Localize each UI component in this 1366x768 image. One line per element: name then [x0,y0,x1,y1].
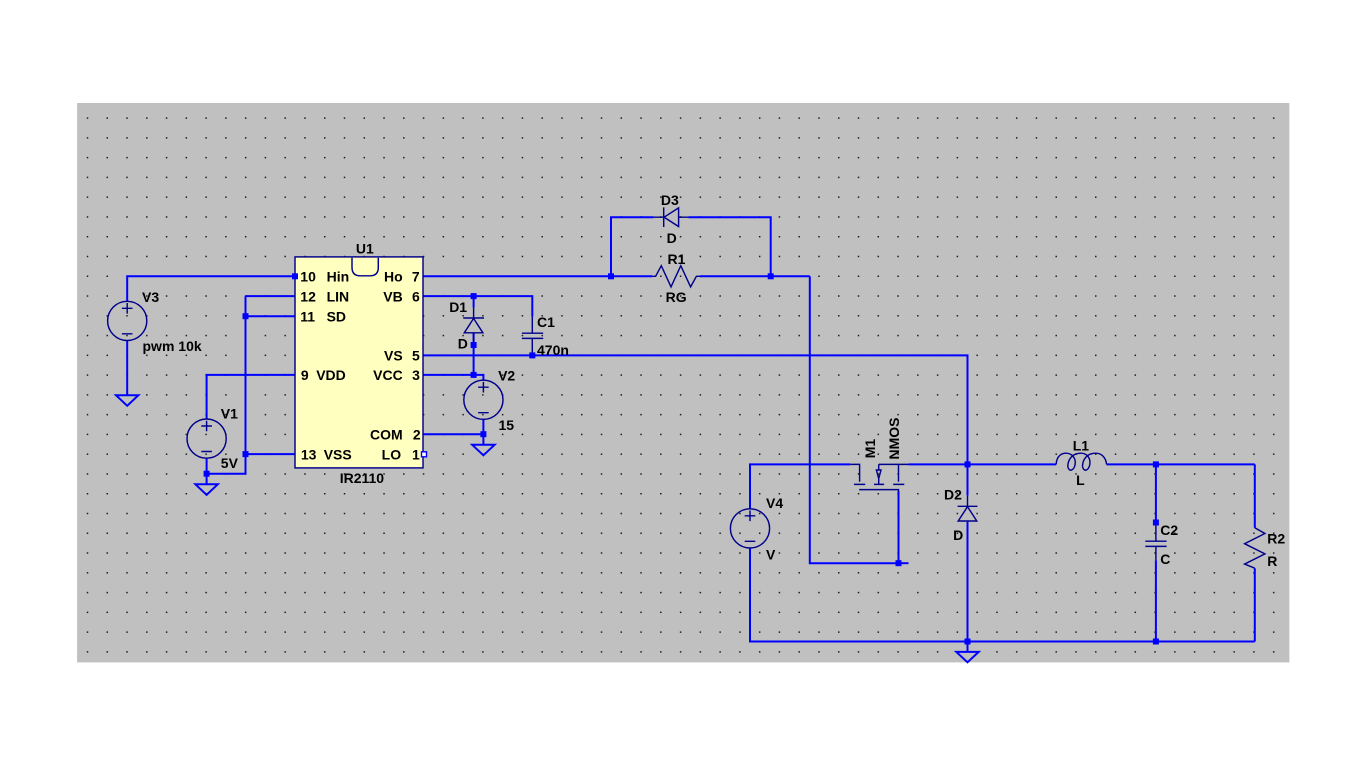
wire gate drop from R1 [810,276,899,563]
node D3 left [608,273,614,279]
node VB [471,293,477,299]
svg-text:10: 10 [300,269,316,285]
wire switch node to L1 [968,463,1057,465]
ground flag V3 [116,395,138,406]
svg-text:12: 12 [300,288,316,304]
svg-text:R: R [1267,553,1277,569]
wire L1 to output node [1107,463,1255,465]
svg-text:V1: V1 [221,405,238,421]
svg-text:R2: R2 [1267,531,1285,547]
svg-text:D2: D2 [944,486,962,502]
op-amp U1 IR2110 body [295,257,423,468]
ground flag V1 [195,484,217,495]
node VCC [471,372,477,378]
wire Ho pin 7 to R1 [423,275,652,277]
svg-text:RG: RG [666,289,687,305]
svg-text:13: 13 [301,446,317,462]
capacitor C1 [522,317,543,353]
svg-text:2: 2 [413,426,421,442]
wire SD pin 11 [246,315,296,317]
wire COM pin 2 [423,433,483,435]
wire D2 anode to bottom rail [967,522,969,642]
svg-text:V4: V4 [766,495,783,511]
voltage source V1 [187,419,226,458]
U1 notch [352,258,378,276]
inductor L1 [1056,453,1106,470]
wire M1 gate vertical [898,491,900,563]
svg-text:LIN: LIN [327,288,350,304]
resistor R1 [652,266,699,287]
wire VB pin 6 to C1 [423,296,532,317]
svg-text:VS: VS [384,348,403,364]
node gate [896,560,902,566]
diode D1 [463,308,484,346]
wire R1 right to gate corner [700,275,810,277]
svg-text:COM: COM [370,426,403,442]
wire R2 bottom lead [1254,568,1256,641]
svg-text:NMOS: NMOS [886,418,902,460]
svg-text:R1: R1 [668,251,686,267]
wire VSS pin 13 [246,453,296,455]
svg-text:VCC: VCC [373,367,403,383]
wire V2 minus to ground [482,434,484,445]
svg-text:C2: C2 [1160,522,1178,538]
node COM [480,431,486,437]
svg-text:U1: U1 [356,240,374,256]
svg-text:pwm 10k: pwm 10k [143,338,202,354]
wire V4 plus to drain rail [750,464,850,508]
voltage source V3 [108,301,147,340]
wire VB junction down to D1 [473,296,475,307]
wire LIN pin 12 [246,295,296,297]
svg-text:9: 9 [301,367,309,383]
svg-text:IR2110: IR2110 [340,470,385,486]
wire V1 minus lead [206,458,208,473]
node C2 bottom [1153,639,1159,645]
svg-text:V2: V2 [498,368,515,384]
grid dots [77,103,1289,662]
svg-text:7: 7 [412,269,420,285]
diode D3 [654,207,689,227]
svg-text:V3: V3 [142,289,159,305]
svg-text:11: 11 [300,308,315,324]
svg-text:VSS: VSS [324,446,352,462]
resistor R2 [1245,528,1265,568]
voltage source V4 [730,509,769,548]
wire M1 source rail to switch node [909,463,968,465]
svg-text:5V: 5V [221,455,239,471]
node output top [1153,461,1159,467]
transistor M1 NMOS [850,464,908,492]
ground flag V2 [472,445,494,456]
capacitor C2 [1145,523,1166,561]
svg-text:SD: SD [327,308,346,324]
node V1 minus [204,471,210,477]
wire D1 anode down to VCC node [473,333,475,375]
svg-text:L: L [1076,472,1085,488]
svg-text:LO: LO [382,446,402,462]
wire R2 top lead [1254,464,1256,527]
svg-text:470n: 470n [537,342,569,358]
wire C2 bottom [1155,560,1157,641]
wire VCC pin 3 to V2 plus [423,375,483,380]
voltage source V2 [464,380,503,419]
node C1 bottom [529,352,535,358]
wire VS pin 5 to switch node [423,355,968,464]
node D1 anode [471,342,477,348]
wire V3 minus to ground [126,341,128,396]
wire V1 minus to VSS bus [207,454,246,474]
svg-text:VB: VB [383,288,402,304]
node switch [965,461,971,467]
wire D3 left branch [611,217,654,276]
wire Hin from V3 to pin 10 [127,276,295,301]
node SD [243,313,249,319]
node C2 top [1153,520,1159,526]
pin LO open square [422,452,427,457]
svg-text:1: 1 [412,446,420,462]
svg-text:V: V [766,547,776,563]
diode D2 [958,496,978,522]
svg-text:VDD: VDD [316,367,346,383]
ground flag main [956,652,978,662]
wire V4 minus to bottom rail [750,548,1255,641]
wire main ground stem [967,642,969,652]
wire VDD pin 9 [207,375,295,419]
node D3 right [768,273,774,279]
node pin10 [292,273,298,279]
wire D3 right branch [689,217,771,276]
svg-text:D3: D3 [661,192,679,208]
node VSS [243,451,249,457]
svg-text:D1: D1 [449,299,467,315]
svg-text:15: 15 [499,417,515,433]
wire V2 minus lead [482,420,484,435]
wire gate stub [899,562,909,564]
svg-text:D: D [667,230,677,246]
svg-text:M1: M1 [862,439,878,459]
svg-text:6: 6 [412,288,420,304]
svg-text:D: D [953,527,963,543]
svg-text:C1: C1 [537,314,555,330]
svg-text:C: C [1160,551,1170,567]
svg-text:Hin: Hin [327,269,350,285]
svg-text:D: D [458,336,468,352]
wire vertical LIN/SD/VSS bus [245,296,247,454]
wire V1 minus to ground [206,474,208,485]
svg-text:3: 3 [412,367,420,383]
svg-text:Ho: Ho [384,269,403,285]
node ground [965,639,971,645]
svg-text:5: 5 [412,348,420,364]
canvas background [77,103,1289,662]
wire C2 top [1155,464,1157,522]
wire switch node down to D2 [967,464,969,495]
M1 body arrow [876,470,881,479]
svg-text:L1: L1 [1073,438,1090,454]
